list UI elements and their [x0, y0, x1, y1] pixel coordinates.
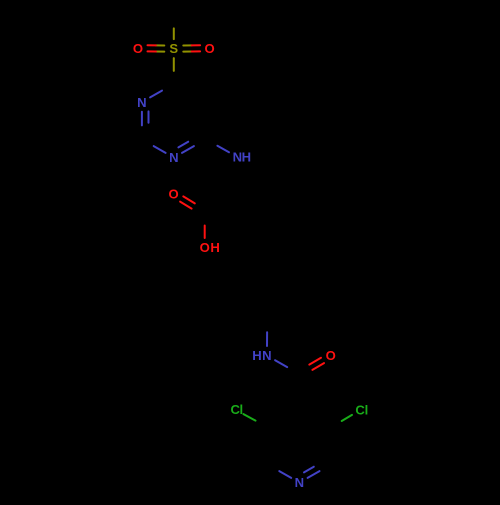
atom label O (O1): [133, 41, 143, 56]
svg-text:l: l: [365, 403, 369, 418]
S=O right: [183, 45, 200, 51]
atom label N (N7): [233, 150, 252, 165]
svg-text:N: N: [295, 475, 304, 490]
bond C-Cl right: [342, 415, 352, 421]
atom label O (O4): [200, 240, 220, 255]
bond C(O)-ring (carbon-carbon, black-on-black invisible): [0, 0, 1, 1]
svg-text:O: O: [169, 187, 179, 202]
carboxyl C=O: [180, 196, 195, 208]
ring double N1p=C6p: [304, 467, 320, 478]
svg-text:S: S: [169, 41, 178, 56]
ring double N1=C2: [142, 111, 149, 125]
S=O left: [148, 45, 165, 51]
bond C-OH: [204, 226, 206, 239]
svg-text:O: O: [133, 41, 143, 56]
svg-text:N: N: [169, 150, 178, 165]
atom label N (N1): [137, 95, 146, 110]
atom label N (N3): [169, 150, 178, 165]
amide N-C bond: [275, 360, 287, 367]
ring bond C2-N3: [154, 146, 166, 153]
svg-text:l: l: [239, 402, 243, 417]
atom label Cl (Cl1): [230, 402, 243, 417]
ring bond (carbon-carbon, black-on-black invisible): [0, 0, 1, 1]
svg-text:N: N: [233, 150, 242, 165]
ring bond C2p-N1p: [279, 471, 291, 478]
ring double C3p=C2p (carbon-carbon, black-on-black invisible): [0, 0, 1, 1]
bond CH2-NH: [266, 332, 268, 346]
atom label N (N1p): [295, 475, 304, 490]
svg-text:O: O: [200, 240, 210, 255]
bond C4-NH: [217, 146, 229, 153]
svg-text:N: N: [262, 348, 271, 363]
ring double C5=C6 (carbon-carbon, black-on-black invisible): [0, 0, 1, 1]
atom label O (O2): [205, 41, 215, 56]
ring double C5p=C4p (carbon-carbon, black-on-black invisible): [0, 0, 1, 1]
ring bond C4-C5 (carbon-carbon, black-on-black invisible): [0, 0, 1, 1]
svg-text:H: H: [210, 240, 219, 255]
S-ring bond: [173, 58, 175, 71]
svg-text:H: H: [242, 150, 251, 165]
svg-text:O: O: [326, 348, 336, 363]
atom label S (S): [169, 41, 178, 56]
atom label N (N8): [252, 348, 271, 363]
bond C-Cl left: [244, 414, 256, 421]
ring bond C6-N1: [150, 91, 162, 98]
svg-text:O: O: [205, 41, 215, 56]
methyl-S bond: [173, 28, 175, 39]
atom label O (O3): [169, 187, 179, 202]
svg-text:H: H: [252, 348, 261, 363]
svg-text:N: N: [137, 95, 146, 110]
atom label O (O5): [326, 348, 336, 363]
atom label Cl (Cl2): [355, 403, 368, 418]
amide C=O: [309, 358, 324, 370]
ring double N3=C4: [178, 142, 194, 153]
ring bond C6p-C5p (carbon-carbon, black-on-black invisible): [0, 0, 1, 1]
